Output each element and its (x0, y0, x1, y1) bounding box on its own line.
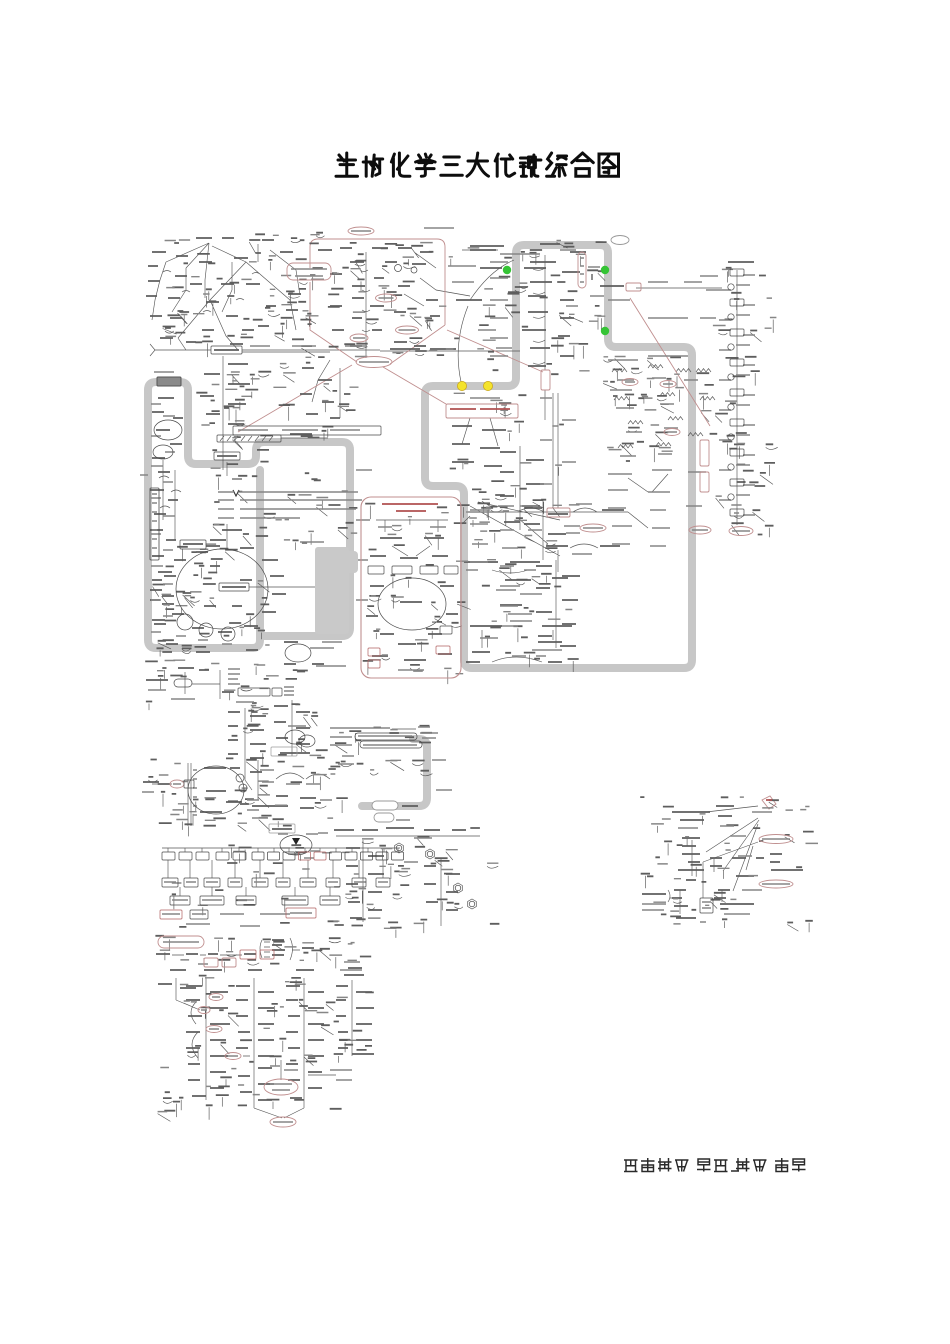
zigzag fatty acyl chains (622, 379, 638, 386)
pink box acetoacetyl-CoA (446, 404, 518, 418)
enzyme band (233, 426, 381, 435)
TCA sub circles (177, 614, 193, 630)
amino box content (368, 566, 384, 574)
green dot pyruvate left (503, 266, 511, 274)
grey highway glycogen ring (148, 390, 260, 648)
table lowest row (160, 910, 182, 919)
bottom formulas (700, 898, 713, 913)
glyoxylate mini cycle (285, 644, 311, 662)
pink oval top label (348, 227, 374, 235)
box pyruvate (214, 452, 240, 460)
bottom top row (240, 950, 256, 959)
pink capsule lipolysis hormone (578, 252, 586, 288)
protein top cluster (174, 679, 192, 687)
vertical label box (150, 488, 159, 560)
TCA inner box (219, 583, 249, 591)
TCA cycle ring (176, 549, 268, 629)
box 1-P-glucose (211, 346, 242, 354)
grey highway urea L (362, 739, 427, 806)
bottom convergence (270, 1117, 296, 1127)
bottom chain C (225, 1053, 241, 1060)
benzene rings (395, 843, 404, 853)
grey highway loop (fatty-acid box) (425, 245, 692, 668)
table lower boxes (170, 896, 190, 905)
pink box amino acid entries (361, 497, 461, 678)
amino acid table row1 (162, 852, 175, 860)
yellow dot 2 (483, 381, 492, 390)
green dot pyruvate right (601, 266, 609, 274)
pink vertical tag 2 (700, 440, 709, 466)
branched amino acid rows (355, 733, 417, 740)
grey highway glycolysis step (148, 382, 350, 636)
title (336, 153, 619, 176)
pink boxes glutaminase (204, 958, 218, 967)
urea cycle ellipse (188, 766, 244, 814)
grey box respiratory chain (315, 547, 349, 634)
bottom chain B (209, 994, 223, 1001)
dark box glycogen (157, 377, 181, 386)
grey oval fumarate (372, 801, 398, 810)
urea left labels (170, 780, 184, 788)
footer credit (624, 1158, 806, 1172)
pink oval palmitate (729, 527, 753, 536)
section header oval (158, 936, 204, 948)
amino acid table row2 (162, 878, 178, 887)
pink oval ethanolamine (759, 880, 793, 888)
thin connector lines (148, 236, 809, 1122)
fatty acid synthesis column (730, 269, 744, 276)
medium lines arrows (232, 274, 592, 496)
pentose interior (395, 265, 402, 272)
glutathione cycle (269, 824, 295, 833)
small oval ketone tag (611, 236, 629, 245)
pink label HMS (287, 263, 331, 280)
green dot acetyl (601, 327, 609, 335)
pink oval xylulose (356, 357, 392, 368)
pink oval phosphatidylcholine (759, 835, 793, 844)
TCA label box (180, 540, 206, 549)
red text dashes (382, 409, 772, 800)
pentose ovals (376, 294, 397, 302)
HMG cluster (689, 526, 711, 534)
yellow dot 1 (457, 381, 466, 390)
tiny text dashes light (140, 228, 818, 1122)
methionine cycle (285, 730, 305, 744)
tiny text dashes dark (143, 233, 814, 1111)
pink vertical tag (541, 370, 550, 390)
malonyl line (626, 283, 641, 291)
bottom mid branch (264, 1079, 298, 1095)
pink outlines (238, 239, 776, 809)
cholesterol synthesis rows (547, 508, 570, 517)
inner ring labels (154, 420, 182, 440)
